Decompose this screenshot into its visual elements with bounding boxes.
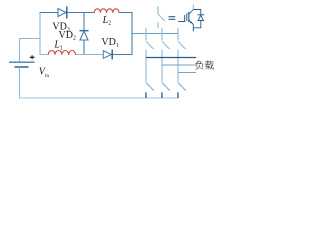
switch leg 2 top tick: [161, 28, 163, 41]
inductor L1 coil: [48, 51, 75, 55]
switch leg 3 blade: [178, 41, 186, 49]
legend switch bottom stub: [157, 23, 159, 29]
wire right vertical: [131, 13, 133, 56]
wire source to node: [19, 38, 41, 40]
IGBT bottom bracket: [193, 24, 201, 28]
wire top row right: [119, 12, 132, 14]
svg-text:VD2: VD2: [59, 30, 76, 42]
IGBT collector slant: [189, 10, 193, 15]
switch leg 1 lower blade: [146, 83, 154, 91]
battery bottom lead: [19, 67, 21, 98]
dc bus wire: [132, 33, 179, 35]
switch leg 2 lower blade: [162, 83, 170, 91]
switch leg 3 lower stub: [177, 92, 179, 98]
load line phase 3: [178, 72, 196, 74]
wire middle row left corner: [40, 54, 49, 56]
antiparallel diode triangle: [198, 15, 203, 20]
phase leg 3 vertical: [177, 50, 179, 83]
IGBT bottom terminal tick: [192, 28, 194, 31]
diode VD2 anode lead: [83, 13, 85, 31]
diode VD1 triangle: [103, 51, 111, 59]
wire left vertical of boost loop: [39, 12, 41, 55]
load line phase 2: [162, 64, 196, 66]
IGBT emitter slant with arrow: [189, 20, 193, 25]
diode VD2 triangle: [80, 31, 88, 40]
IGBT top bracket: [193, 10, 201, 15]
phase leg 1 vertical: [145, 50, 147, 83]
switch leg 2 blade: [162, 41, 170, 49]
switch leg 3 top tick: [177, 28, 179, 41]
label load (zai): [205, 60, 214, 69]
battery source lead top: [19, 39, 21, 63]
load line phase 1: [146, 57, 196, 59]
svg-text:Vin: Vin: [39, 66, 50, 79]
wire top row mid: [67, 12, 95, 14]
svg-text:L2: L2: [102, 15, 112, 27]
battery V_in long plate: [9, 61, 35, 63]
diode VD1 cathode bar: [111, 50, 113, 60]
equals sign: [169, 16, 176, 18]
diode VD3 triangle: [58, 9, 66, 17]
wire top row left: [40, 12, 59, 14]
legend switch top tick: [157, 6, 159, 14]
svg-text:L1: L1: [53, 40, 63, 52]
legend switch blade: [158, 14, 165, 21]
diode VD2 bottom lead: [83, 40, 85, 55]
svg-text:VD1: VD1: [101, 37, 118, 49]
IGBT main bar: [188, 12, 190, 22]
inductor L2 coil: [94, 9, 119, 13]
switch leg 3 lower blade: [178, 83, 186, 91]
switch leg 1 lower stub: [145, 92, 147, 98]
IGBT gate bar: [186, 13, 188, 21]
antiparallel diode cathode bar: [197, 14, 204, 16]
switch leg 1 blade: [146, 41, 154, 49]
diode VD3 cathode bar: [66, 7, 68, 19]
wire middle row right: [113, 54, 133, 56]
switch leg 2 lower stub: [161, 92, 163, 98]
plus sign: [30, 56, 35, 58]
IGBT gate lead: [178, 15, 185, 22]
battery V_in short plate: [15, 66, 29, 68]
phase leg 2 vertical: [161, 50, 163, 83]
bottom rail wire: [19, 97, 179, 99]
switch leg 1 top tick: [145, 28, 147, 41]
diode VD2 cathode bar: [80, 30, 89, 32]
IGBT top terminal tick: [192, 5, 194, 10]
antiparallel diode anode lead: [200, 21, 202, 28]
wire middle row mid: [76, 54, 103, 56]
label load (fu): [195, 61, 203, 70]
